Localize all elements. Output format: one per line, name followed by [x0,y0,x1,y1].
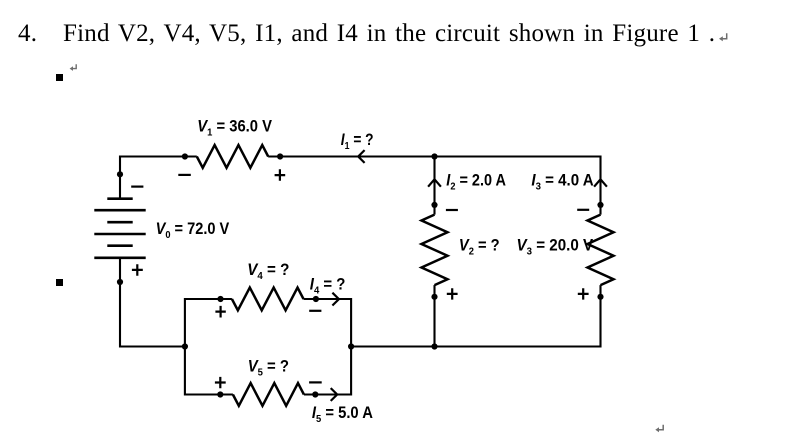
arrow I5 pointing right [331,388,338,401]
resistor V2 zigzag [422,215,448,286]
wire: V5 right side up to node C [304,347,351,395]
junction dot node B [182,343,188,349]
minus sign V4 [309,310,321,312]
svg-text:V1 = 36.0 V: V1 = 36.0 V [197,118,272,139]
svg-text:I3 = 4.0 A: I3 = 4.0 A [531,172,593,193]
wire: node B up and right to resistor V4 [185,299,232,347]
resistor V5 zigzag [233,383,304,406]
resistor V3 zigzag [588,215,614,286]
minus sign V5 [309,381,322,383]
junction dot V2 bottom terminal [431,294,437,300]
minus sign V3 [577,209,589,211]
junction dot left rail top [117,171,123,177]
arrow I1 pointing left [358,150,364,163]
svg-text:V0 = 72.0 V: V0 = 72.0 V [156,220,230,241]
arrow I4 pointing right [332,293,339,306]
plus sign V3 [578,288,589,299]
svg-text:V3 = 20.0 V: V3 = 20.0 V [517,237,594,258]
paragraph return mark after bullet 1 [70,64,77,71]
wire: I2 branch upper stub [433,157,435,215]
svg-text:V2 = ?: V2 = ? [459,237,500,258]
wire: top from V1 to top-right corner down to resistor V3 [268,157,600,215]
junction dot V3 top terminal [597,202,603,208]
resistor V4 zigzag [232,288,304,311]
minus sign V1 [178,174,191,176]
svg-text:I5 = 5.0 A: I5 = 5.0 A [312,404,373,425]
junction dot V5 right terminal [312,391,318,397]
junction dot node A top of I2 branch [431,153,437,159]
svg-text:I1 = ?: I1 = ? [341,131,374,152]
wire: bottom from node C to bottom-right corner up to resistor V3 [351,285,600,346]
minus sign battery [131,186,143,188]
arrow I3 pointing up [594,179,607,186]
svg-text:I2 = 2.0 A: I2 = 2.0 A [446,172,506,193]
svg-text:V4 = ?: V4 = ? [247,261,289,282]
junction dot bottom of I2 branch [431,343,437,349]
svg-text:V5 = ?: V5 = ? [248,357,289,378]
problem title number [18,20,37,48]
wire: battery bottom down to bottom-left corner and right to node B [120,258,185,347]
minus sign V2 [446,209,458,211]
junction dot V5 left terminal [217,391,223,397]
plus sign V1 [275,169,286,181]
bullet square 2 [56,279,63,286]
wire: I2 branch lower stub [433,285,435,346]
problem title text [63,20,715,48]
arrow I2 pointing up [428,179,441,186]
junction dot V1 left terminal [182,153,188,159]
plus sign battery [132,264,143,276]
resistor V1 zigzag [197,145,268,168]
plus sign V4 [215,306,225,318]
bullet square 1 [56,74,63,81]
wire: V4 right side down to node C [304,299,352,347]
junction dot V1 right terminal [277,153,283,159]
junction dot V2 top terminal [431,202,437,208]
plus sign V2 [447,288,458,299]
plus sign V5 [215,377,226,388]
junction dot V4 right terminal [313,296,319,302]
wire: node B down and right to resistor V5 [185,347,233,395]
junction dot node C [348,343,354,349]
wire: battery top plate up and right to resistor V1 [120,157,197,199]
paragraph return mark bottom right [655,425,663,433]
paragraph return mark after title [719,33,727,41]
junction dot V3 bottom terminal [597,294,603,300]
svg-text:I4 = ?: I4 = ? [310,275,346,296]
battery V0 plates [94,199,145,258]
junction dot left rail bottom [117,279,123,285]
junction dot V4 left terminal [217,296,223,302]
